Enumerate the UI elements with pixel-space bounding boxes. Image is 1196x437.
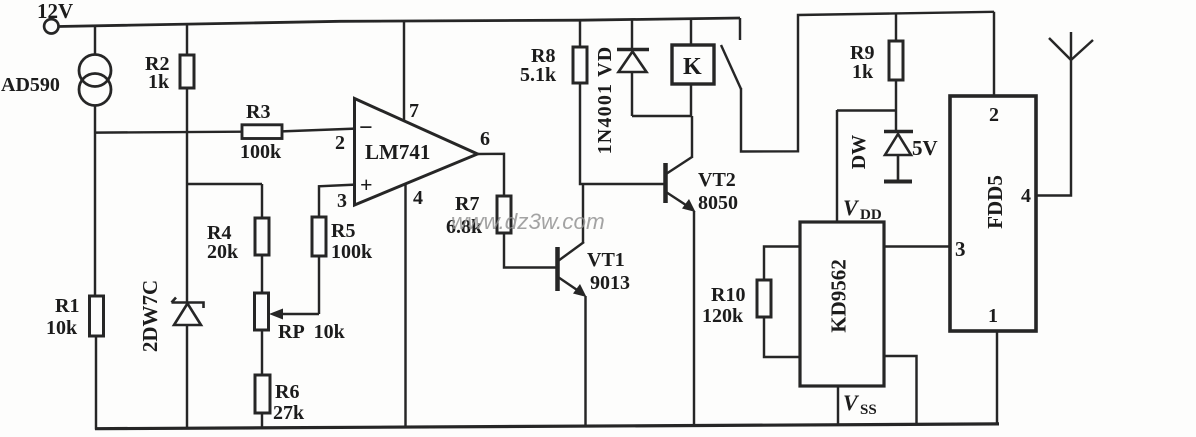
transistor VT2	[666, 157, 696, 212]
transistor VT1	[558, 242, 587, 297]
wire KD lower right to ground	[884, 356, 917, 425]
current source AD590	[79, 55, 111, 106]
svg-text:1k: 1k	[852, 61, 874, 83]
svg-text:12V: 12V	[37, 0, 73, 23]
wire wiper up to R5	[318, 256, 320, 314]
wire R10 top link	[764, 247, 800, 281]
resistor R9	[889, 41, 903, 80]
wire R9 top	[895, 13, 897, 41]
svg-text:120k: 120k	[702, 305, 744, 327]
resistor R10	[757, 280, 771, 317]
wire VDD riser	[836, 110, 838, 222]
wire pin4 to ground rail	[404, 184, 406, 428]
svg-text:1: 1	[988, 305, 998, 327]
wire RP wiper arrow	[269, 309, 319, 320]
wire switch to right riser	[741, 12, 994, 152]
svg-text:5.1k: 5.1k	[520, 64, 557, 86]
svg-text:4: 4	[413, 187, 423, 209]
resistor R5	[312, 217, 326, 256]
svg-text:2: 2	[989, 104, 999, 126]
svg-text:AD590: AD590	[1, 74, 60, 96]
wire 2DW7C to ground rail	[186, 325, 188, 429]
wire K top	[690, 19, 692, 45]
svg-text:R10: R10	[711, 284, 745, 306]
resistor R2	[180, 55, 194, 88]
wire VT2 emitter to ground rail	[693, 211, 695, 426]
IC KD9562 box	[800, 222, 884, 386]
svg-text:RP10k: RP10k	[278, 321, 346, 343]
wire R10 bottom link	[764, 317, 800, 357]
svg-text:4: 4	[1021, 185, 1031, 207]
resistor R8	[573, 47, 587, 83]
svg-text:20k: 20k	[207, 241, 239, 263]
zener diode DW 5V	[884, 132, 913, 182]
wire R5 up to pin3	[319, 185, 355, 217]
IC FDD5 box	[950, 96, 1036, 331]
svg-text:KD9562: KD9562	[827, 259, 851, 333]
svg-text:−: −	[359, 115, 373, 141]
op-amp U1 LM741 triangle	[355, 99, 478, 206]
diode VD 1N4001	[617, 50, 649, 73]
switch contact	[721, 18, 741, 89]
svg-text:VT1: VT1	[587, 249, 625, 271]
wire zener node to VDD riser	[837, 109, 896, 111]
svg-text:9013: 9013	[590, 272, 630, 294]
svg-text:8050: 8050	[698, 192, 738, 214]
zener diode 2DW7C	[172, 298, 204, 326]
svg-text:7: 7	[409, 100, 419, 122]
svg-text:VT2: VT2	[698, 169, 736, 191]
wire R6 to ground rail	[261, 413, 263, 429]
svg-text:R6: R6	[275, 381, 299, 403]
wire R4 to RP	[261, 255, 263, 293]
wire divider node horizontal	[187, 183, 262, 185]
wire R7 to VT1 base	[504, 233, 556, 268]
wire R1 to ground rail	[95, 336, 97, 430]
svg-text:2: 2	[335, 132, 345, 154]
resistor R4	[255, 218, 269, 255]
wire ground rail	[95, 424, 999, 429]
wire AD590 bottom to node	[94, 106, 96, 297]
svg-text:R3: R3	[246, 101, 270, 123]
svg-text:+: +	[360, 172, 373, 197]
wire FDD5 pin4 to antenna	[1036, 60, 1071, 196]
resistor R7	[497, 196, 511, 233]
svg-text:100k: 100k	[240, 141, 282, 163]
wire R2 top	[186, 24, 188, 55]
svg-text:100k: 100k	[331, 241, 373, 263]
svg-text:6: 6	[480, 128, 490, 150]
wire to R4	[261, 184, 263, 219]
svg-text:1N4001 VD: 1N4001 VD	[594, 46, 616, 155]
wire K bottom	[690, 84, 692, 116]
svg-text:3: 3	[337, 190, 347, 212]
svg-text:R1: R1	[55, 295, 79, 317]
svg-text:V: V	[843, 390, 860, 415]
svg-text:2DW7C: 2DW7C	[138, 280, 162, 352]
svg-text:10k: 10k	[46, 317, 78, 339]
wire KD pin3 to FDD5	[884, 245, 950, 247]
wire VD bottom	[631, 72, 633, 116]
wire pin7 to rail	[403, 21, 405, 120]
wire top rail	[58, 18, 740, 27]
node 12V terminal	[44, 19, 58, 33]
wire VSS to ground rail	[837, 386, 839, 426]
wire VT1 collector up	[582, 184, 584, 243]
svg-text:V: V	[843, 195, 860, 220]
wire node row to R3	[95, 130, 243, 133]
svg-text:FDD5: FDD5	[983, 175, 1007, 229]
antenna	[1049, 32, 1093, 60]
relay K coil box	[672, 45, 714, 84]
svg-text:LM741: LM741	[365, 140, 430, 164]
svg-text:SS: SS	[860, 402, 877, 418]
wire VT1 emitter to ground rail	[584, 296, 586, 427]
wire VT2 collector	[691, 116, 693, 158]
wire FDD5 pin2 top	[993, 12, 995, 96]
wire VD diode top	[631, 20, 633, 50]
wire R8 bottom to base node	[580, 83, 664, 184]
svg-text:1k: 1k	[148, 71, 170, 93]
wire R8 top	[579, 20, 581, 47]
svg-text:K: K	[683, 54, 702, 80]
wire R3 to op-amp pin2	[282, 129, 355, 132]
svg-text:www.dz3w.com: www.dz3w.com	[451, 209, 605, 234]
wire pin6 to R7	[477, 154, 504, 196]
wire relay node horizontal	[632, 115, 692, 117]
resistor R1	[90, 296, 104, 336]
resistor R6	[255, 375, 270, 413]
svg-text:5V: 5V	[912, 136, 938, 160]
wire R2 bottom down to zener	[186, 88, 188, 303]
wire RP to R6	[261, 330, 263, 375]
svg-text:DD: DD	[860, 207, 882, 223]
svg-text:3: 3	[955, 237, 966, 261]
wire R9 bottom to zener node	[895, 80, 897, 131]
potentiometer RP	[255, 293, 269, 330]
resistor R3	[242, 125, 282, 139]
svg-text:DW: DW	[848, 135, 870, 169]
wire AD590 top	[94, 26, 96, 55]
svg-text:27k: 27k	[273, 402, 305, 424]
svg-text:R5: R5	[331, 220, 355, 242]
wire FDD5 pin1 to ground rail	[996, 331, 998, 425]
